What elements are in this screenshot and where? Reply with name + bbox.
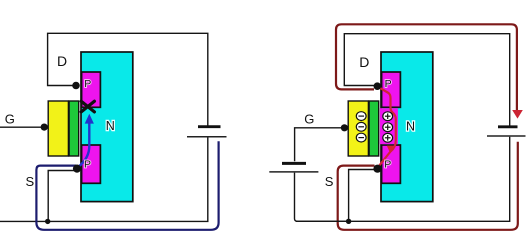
N substrate block [381,52,433,202]
svg-text:D: D [359,54,369,70]
wire: battery bottom to ground rail (black) [296,137,510,222]
terminal dot D [374,82,382,90]
wire: navy return wire S to battery (outer) [36,141,218,230]
wire: gate lead from left edge [0,126,42,128]
battery BT2 bottom plate (long thin) [487,135,526,137]
svg-text:D: D [57,53,67,69]
battery BT1 bottom plate (long thin) [187,136,227,138]
wire: gate battery bottom to ground rail [295,173,348,222]
terminal dot G [41,124,48,131]
gate electrode (yellow) [48,101,68,156]
wire: gate lead to gate battery [295,128,341,162]
svg-text:P: P [84,159,91,171]
junction dot on ground rail [45,219,50,224]
blue arrow (electron path blocked, pointing up) [79,121,90,167]
wire: battery bottom to ground rail along image bottom [0,138,208,222]
wire: drain loop black (D terminal to battery top) [344,34,509,126]
junction dot on ground rail [346,219,351,224]
terminal dot S [73,165,81,173]
red arrowhead in channel (down) [387,146,394,154]
wire: red return path battery bottom to S terminal [338,142,518,230]
P region upper (drain) [382,72,401,107]
X mark (channel blocked) [81,101,94,112]
gate electrode (yellow) [348,101,368,156]
P region lower (source) [82,145,101,183]
terminal dot S [373,165,381,173]
svg-text:S: S [325,174,334,189]
gate battery top plate (short thick, -) [282,162,306,165]
svg-text:S: S [26,174,35,189]
wire: red current path top loop with rounded corners [336,24,517,110]
gate oxide (green) [369,101,379,156]
wire: drain loop (D terminal to battery + top rail) [48,33,208,125]
svg-text:P: P [384,159,391,171]
hole charges in induced channel (circled plus x3) [383,112,393,142]
red arrowhead (current direction, down) [512,110,523,119]
svg-text:P: P [84,78,91,90]
gate oxide (green) [69,101,79,156]
svg-text:G: G [304,112,314,127]
induced P channel strip [380,108,398,144]
svg-text:N: N [406,120,415,134]
N substrate block [81,52,133,202]
P region lower (source) [382,145,401,183]
svg-text:G: G [5,112,15,127]
wire: source black wire to ground rail [349,170,375,220]
battery BT1 top plate (short thick) [198,125,221,128]
battery BT2 top plate (short thick) [498,125,518,128]
electron charges in gate electrode (circled minus x3) [356,112,366,142]
P region upper (drain) [82,72,101,107]
svg-text:P: P [385,78,392,90]
terminal dot D [72,82,80,90]
wire: red current path through channel D to S [378,87,396,167]
gate battery bottom plate (long thin, +) [269,171,318,173]
terminal dot G [341,124,348,131]
svg-text:N: N [106,119,115,133]
wire: source black wire to ground rail [48,171,75,220]
